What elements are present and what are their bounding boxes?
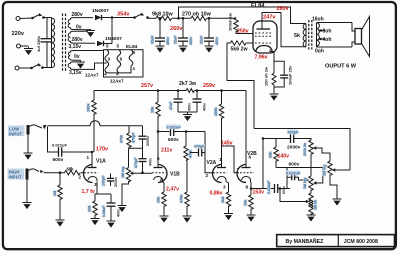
svg-text:140v: 140v [278,154,290,160]
svg-text:V1B: V1B [170,172,180,178]
svg-text:10k: 10k [157,196,161,203]
capacitor V1A cathode bypass [102,194,121,228]
svg-text:470pF: 470pF [134,157,138,168]
V1A plate lead [88,151,97,168]
svg-text:1M log: 1M log [323,165,327,176]
svg-text:OUPUT 6 W: OUPUT 6 W [325,64,357,70]
svg-text:1M: 1M [53,191,57,196]
V2B cathode resistor [244,182,256,222]
LOW INPUT label [8,126,25,137]
svg-text:470k: 470k [120,135,124,143]
tap 16oh [312,17,352,23]
transformer T1 primary coil [52,18,55,68]
svg-text:7,96v: 7,96v [255,55,268,61]
svg-text:1M log: 1M log [121,167,125,178]
treble wire [262,137,311,140]
label C3 [200,35,220,45]
ground C2 [179,45,188,53]
svg-text:470pF: 470pF [194,145,205,149]
V1A cathode lead [97,182,111,194]
svg-text:450v: 450v [215,37,219,45]
svg-text:INPUT: INPUT [9,131,22,136]
filter cap C3 [204,18,214,46]
EL84 grids dashed [255,33,273,43]
wire [21,45,29,47]
svg-text:5: 5 [106,44,109,49]
svg-text:354v: 354v [117,12,130,18]
mains terminal E [17,44,21,48]
svg-text:0.022uF: 0.022uF [52,143,67,148]
svg-text:200k lin: 200k lin [303,143,307,156]
svg-text:100oh 1w: 100oh 1w [228,12,233,31]
resistor 150 oh 2w cathode [264,66,277,94]
svg-text:0v: 0v [74,54,80,60]
label C2 [174,35,194,45]
svg-text:153v: 153v [253,190,265,196]
svg-text:600v: 600v [289,161,300,167]
svg-text:2,47v: 2,47v [166,187,179,193]
transformer HV secondary winding upper [68,18,93,30]
svg-text:170v: 170v [96,147,108,153]
svg-text:450v: 450v [189,37,193,45]
svg-text:280v: 280v [72,37,83,43]
volume pot 1M log [118,148,153,212]
wire [44,17,52,19]
treble peaker cap 470pF [139,126,151,149]
LOW jack contact [27,125,30,135]
svg-text:1k8: 1k8 [221,197,225,203]
tap 4oh [318,37,332,43]
mid pot [306,193,318,222]
svg-text:5k6 2w: 5k6 2w [231,46,249,52]
wire [19,67,32,69]
master volume pot [323,161,351,206]
svg-text:0oh: 0oh [315,49,324,55]
heater inner wire mid [104,62,107,64]
wire to 68k [44,172,65,174]
svg-text:400v: 400v [149,158,153,166]
svg-text:V2A: V2A [207,160,217,166]
svg-text:100k: 100k [87,103,91,112]
svg-text:600v: 600v [282,186,286,194]
resistor 68k [65,167,85,175]
LOW jack ground [24,135,33,160]
svg-text:600v: 600v [168,137,179,143]
svg-text:8: 8 [246,185,249,190]
B+ rail wire [148,17,157,19]
LOW jack spring curl [30,125,43,128]
decoupling cap B [193,89,207,112]
svg-text:32uF: 32uF [174,35,178,44]
OT primary coil 5k [303,24,306,47]
svg-text:47uF: 47uF [169,101,173,110]
bass cap 0.022uF [286,171,310,182]
svg-text:450v: 450v [166,37,170,45]
svg-text:1k8: 1k8 [88,206,92,212]
svg-text:EL84: EL84 [251,3,265,9]
EL84 tube envelope [253,21,277,53]
ground C3 [205,45,214,53]
filter cap C2 [178,18,188,46]
stray cap 100pF [102,174,119,188]
svg-text:280v: 280v [72,12,83,18]
resistor 100k V1A plate load [87,91,97,153]
resistor V2A plate load [214,89,224,167]
svg-text:247v: 247v [263,15,276,21]
wire D2 to node [111,18,113,44]
svg-text:68k: 68k [67,167,75,172]
svg-text:0,86v: 0,86v [210,191,223,197]
V2B envelope arc [237,165,246,183]
bright cap 470pF [134,148,153,174]
HIGH jack ground [23,180,32,210]
tap 0oh [315,47,352,55]
svg-text:400v: 400v [117,209,121,217]
resistor V1A cathode [88,194,100,225]
decoupling caps ground [178,112,197,121]
coupling wire V1B plate [157,130,170,133]
svg-text:270 oh 10w: 270 oh 10w [182,12,212,18]
preamp B+ rail [94,90,246,92]
HIGH jack contact [26,169,29,180]
svg-text:16oh: 16oh [312,17,324,23]
wire [43,67,52,69]
junction dots B+ [159,17,211,20]
resistor 1M grid leak [53,171,65,226]
standby switch [112,13,149,19]
EL84 cathode [256,46,272,53]
V1B envelope arc [158,165,167,183]
svg-text:1uf 250v: 1uf 250v [36,35,41,52]
V2A cathode [217,177,226,182]
resistor 2k7 3w [179,81,197,93]
svg-text:V1A: V1A [96,159,106,165]
resistor 9k8 10w [156,16,172,20]
ground E [24,47,33,55]
svg-text:100uF 25v: 100uF 25v [288,65,293,85]
mains terminal L [16,17,20,21]
resistor 5k6 2w [231,41,249,53]
V2A cathode resistor [221,182,233,221]
svg-text:100pF: 100pF [102,175,106,186]
grid stopper path to EL84 [246,42,253,44]
svg-text:9k8 10w: 9k8 10w [152,12,173,18]
svg-text:1: 1 [219,157,222,162]
svg-text:470pF: 470pF [132,132,136,143]
svg-text:450v: 450v [188,103,192,111]
svg-text:1: 1 [87,155,90,160]
svg-text:6: 6 [249,155,252,160]
diode D1 1N4007 [95,15,112,20]
mains terminal N [15,66,19,70]
master wire to EL84 [254,129,350,171]
V2B plate bar [242,167,251,169]
tap 8oh [318,29,332,35]
wire V2A plate to V2B grid [222,146,240,173]
svg-text:470k: 470k [189,150,193,158]
speaker [355,17,370,57]
svg-text:211v: 211v [161,148,172,154]
svg-text:0.022uF: 0.022uF [286,171,301,175]
heater box [104,50,144,77]
tone cap 0.022uF 600v [263,180,290,194]
treble pot 200k [303,140,330,176]
title block [277,235,395,247]
wire 260v feed up [179,7,307,24]
switch SW1a blade [31,13,45,19]
slope resistor 33k [269,139,279,168]
svg-text:5k: 5k [294,33,300,39]
svg-text:2: 2 [206,173,209,178]
transformer T1 core [63,14,66,73]
coupling cap 0.022uF 600v V1A [52,143,92,164]
HIGH INPUT label [8,169,25,180]
HIGH jack spring curl [29,169,40,172]
svg-text:32uF: 32uF [200,35,204,44]
wire low jack down [48,127,59,153]
svg-text:220v: 220v [12,31,25,37]
transformer heater winding lower [68,62,103,70]
filter cap C1 [155,18,165,46]
V1B plate bar [154,167,163,169]
svg-text:100k: 100k [214,107,218,116]
V1A grid dashed [84,172,98,174]
HV centre tap 0v ground [76,24,95,37]
svg-text:250v: 250v [237,29,249,35]
V1B cathode resistor [157,182,169,223]
svg-text:600v: 600v [53,157,64,163]
EL84 plate [257,13,307,47]
coupling cap 0.022uF 600v [166,125,205,144]
tone stack input wire [250,139,263,190]
speaker wires [352,23,355,48]
svg-text:10k: 10k [244,199,248,206]
svg-text:1M log: 1M log [303,178,307,189]
OT core [309,20,312,50]
wire [20,17,33,20]
treble cap 470pF 2000v [287,130,301,151]
svg-text:0.68uF: 0.68uF [102,205,106,217]
V1A envelope arc [84,165,93,183]
diode D2 1N4007 [97,41,112,46]
wire up to 140v node [286,168,288,189]
resistor V2A grid leak [180,192,192,223]
svg-text:10k: 10k [151,106,155,113]
svg-text:JCM 800 2008: JCM 800 2008 [344,239,378,245]
svg-text:257v: 257v [141,83,153,89]
capacitor 100uF 25v [274,61,293,87]
svg-text:1N4007: 1N4007 [105,36,122,42]
wire hop [48,121,143,126]
svg-text:3,15v: 3,15v [69,70,82,76]
svg-text:1,7 fv: 1,7 fv [82,189,95,195]
resistor 470k mixer [184,130,193,192]
decoupling cap A [169,89,192,112]
V2A plate bar [217,167,226,169]
V1B cathode [154,177,163,182]
svg-text:6: 6 [157,156,160,161]
svg-text:0.022uF: 0.022uF [267,180,271,194]
svg-text:3,15v: 3,15v [69,44,82,50]
svg-text:150 oh 2w: 150 oh 2w [264,66,269,86]
V2B grid dashed [240,172,254,174]
svg-text:145v: 145v [221,140,233,146]
svg-text:260v: 260v [277,6,289,12]
treble peaker resistor 470k [120,126,143,149]
svg-text:259v: 259v [203,83,215,89]
svg-text:5: 5 [117,44,120,49]
V2A grid dashed [213,172,227,174]
svg-text:2000v: 2000v [287,145,301,151]
svg-text:INPUT: INPUT [9,175,22,180]
heater filament EL84 [129,50,133,66]
V1B grid dashed [152,172,166,174]
V1A cathode [88,177,97,182]
resistor V1B plate load [151,89,161,167]
svg-text:2000v: 2000v [114,177,118,187]
svg-text:12Ax7: 12Ax7 [85,73,99,78]
transformer heater winding upper [69,51,104,61]
heater inner wire bottom [107,66,131,73]
wire to V2A grid [205,132,214,173]
small cap 470pF [190,145,205,157]
svg-text:12Ax7: 12Ax7 [110,79,124,84]
svg-text:1N4007: 1N4007 [92,8,109,14]
140v node wire [276,167,323,169]
V2B plate lead [245,91,247,168]
label C1 [151,35,171,45]
transformer HV secondary winding lower [68,31,95,43]
svg-text:3: 3 [223,184,226,189]
svg-text:2000v: 2000v [146,136,150,146]
wire EL84 grid to master [227,43,254,129]
svg-text:400v: 400v [203,103,207,111]
svg-text:0.022uF: 0.022uF [167,125,182,129]
EL84 cathode lead [270,50,274,74]
svg-text:470k: 470k [180,194,184,203]
bass pot [303,168,323,194]
heater filament 12Ax7 #2 [117,50,121,73]
heater centre tap 0v ground [74,54,85,68]
svg-text:By MANBAÑEZ: By MANBAÑEZ [286,238,325,245]
svg-text:8oh: 8oh [323,29,332,35]
svg-text:4oh: 4oh [323,37,332,43]
switch SW1b blade [30,63,44,69]
svg-text:33k: 33k [269,151,273,158]
wire cap to mid pot wiper [280,189,306,202]
svg-text:32uF: 32uF [151,35,155,44]
ground EL84 cathode [270,93,279,101]
resistor 270 oh 10w [191,16,207,20]
resistor 100oh 1w screen [228,12,254,33]
svg-text:1M lin: 1M lin [314,200,318,210]
svg-text:260v: 260v [170,26,183,32]
svg-text:0v: 0v [76,24,82,30]
ground C1 [156,45,165,53]
OT secondary coil [317,23,320,48]
svg-text:470pF: 470pF [288,130,300,134]
V2B cathode [242,177,251,182]
svg-text:2k7 3w: 2k7 3w [179,81,197,87]
V2A envelope arc [213,165,222,183]
capacitor 1uf 250v [36,18,52,68]
heater filament 12Ax7 #1 [105,50,109,73]
